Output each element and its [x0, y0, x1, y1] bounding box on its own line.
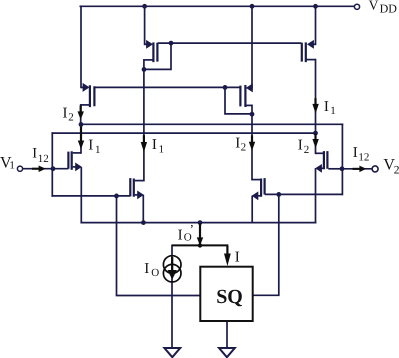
node dot V1 junction	[51, 166, 56, 171]
svg-text:I: I	[324, 99, 329, 115]
svg-text:2: 2	[68, 111, 74, 123]
wire MP0 drain down	[80, 105, 82, 125]
svg-text:I: I	[235, 135, 240, 151]
label I2 mid	[235, 135, 246, 153]
wire SQ bottom to ground	[226, 321, 228, 348]
node dot MP2 drain junction	[250, 112, 255, 117]
svg-text:DD: DD	[380, 2, 398, 16]
current arrow I2 mid	[249, 135, 255, 150]
node dot top rail / MP1 source	[142, 4, 147, 9]
terminal V1	[17, 166, 22, 171]
wire node A corner down right side	[341, 124, 343, 194]
svg-text:12: 12	[38, 153, 49, 165]
wire MP2 diode loop	[225, 87, 252, 114]
svg-text:2: 2	[304, 144, 310, 156]
svg-text:SQ: SQ	[216, 286, 243, 308]
svg-text:1: 1	[9, 159, 15, 171]
svg-text:I: I	[178, 227, 183, 243]
wire tail rail (common sources)	[81, 222, 315, 224]
wire SQ left input from V1 node	[117, 196, 201, 296]
SQ block	[200, 267, 252, 321]
wire MN2 source drop	[142, 196, 144, 223]
terminal V2	[372, 166, 378, 172]
current arrow IO' tail	[197, 224, 203, 246]
wire V1 riser	[51, 133, 53, 196]
wire MN3 source drop	[251, 196, 253, 222]
svg-text:I: I	[353, 145, 358, 161]
svg-text:I: I	[144, 261, 149, 277]
label IO'	[178, 222, 194, 244]
svg-text:V: V	[369, 0, 379, 12]
node dot node A left	[79, 122, 84, 127]
label I2 left	[63, 106, 74, 124]
svg-text:1: 1	[95, 144, 101, 156]
current source IO arrow	[168, 257, 177, 280]
svg-text:I: I	[63, 106, 68, 122]
node dot top rail / MP2 source	[250, 4, 255, 9]
wire node A rail (MP0 drain to right corner)	[81, 123, 342, 125]
current arrow I12 left	[32, 166, 46, 173]
svg-text:1: 1	[159, 144, 165, 156]
node dot SQ right tap	[276, 192, 281, 197]
svg-text:I: I	[88, 137, 93, 153]
label V1	[0, 155, 15, 172]
label I1 right	[324, 99, 336, 117]
wire SQ right input from V2 node	[253, 194, 279, 295]
label I1 left	[88, 137, 100, 156]
node dot MP2 gate loop	[223, 85, 228, 90]
wire IO' black horizontal	[172, 245, 227, 246]
wire node A down to MN1 drain	[80, 124, 82, 152]
current arrow I12 right	[353, 166, 367, 173]
wire MP1 drain down to MN2 drain	[143, 60, 145, 181]
transistor MP3	[302, 40, 316, 62]
svg-text:O: O	[151, 267, 159, 279]
label VDD	[369, 0, 398, 16]
node dot top rail / MP3 source	[313, 4, 318, 9]
transistor MN2	[130, 178, 144, 199]
transistor MN4	[315, 151, 342, 173]
node dot IO' black	[198, 243, 202, 247]
transistor MN3	[252, 178, 265, 200]
svg-text:I: I	[152, 137, 157, 153]
node dot MN2 source on tail rail	[141, 220, 146, 225]
ground right	[219, 348, 235, 357]
node dot SQ left tap	[114, 194, 119, 199]
label I1 mid	[152, 137, 164, 155]
svg-text:I: I	[32, 146, 37, 162]
svg-text:I: I	[298, 138, 303, 154]
wire V2 to terminal	[342, 168, 372, 170]
svg-text:12: 12	[358, 151, 369, 163]
transistor MP2	[240, 83, 252, 107]
svg-text:2: 2	[394, 164, 399, 176]
current arrow I1 right	[312, 98, 318, 113]
wire MN1 source down to tail rail	[80, 168, 82, 223]
wire PMOS mirror gate line mid (MP0-MP2)	[95, 86, 240, 88]
wire node B rail (left corner to MP3 drain)	[52, 132, 315, 134]
transistor MP1	[144, 40, 158, 62]
svg-text:’: ’	[190, 222, 194, 237]
current arrow I1 left	[78, 127, 84, 150]
wire VDD corner down to MP0 source	[80, 6, 82, 87]
transistor MN1	[68, 151, 82, 171]
wire PMOS mirror gate line top (MP1-MP3)	[158, 42, 300, 44]
svg-text:2: 2	[241, 142, 247, 154]
wire MP1 source drop	[144, 6, 146, 44]
current arrow I into SQ	[224, 246, 231, 266]
label I12 left	[32, 146, 49, 165]
node dot MP1 gate loop	[169, 41, 174, 46]
terminal VDD	[354, 4, 359, 9]
svg-text:1: 1	[330, 105, 336, 117]
label I2 right	[298, 138, 310, 157]
label V2	[383, 157, 399, 177]
transistor MP0	[81, 83, 95, 107]
label I into SQ	[235, 250, 240, 266]
ground left	[164, 348, 180, 357]
wire MN4 source down to tail rail	[315, 169, 317, 223]
wire MP1 diode loop	[144, 43, 171, 69]
svg-text:I: I	[235, 250, 240, 266]
wire MP3 drain down to MN4 drain	[315, 60, 317, 154]
current arrow I2 right	[312, 134, 318, 148]
wire V1 to MN1 gate	[23, 168, 68, 170]
node dot node B right	[313, 131, 318, 136]
wire MP2 drain down to MN3 drain	[251, 105, 253, 179]
label IO	[144, 261, 159, 279]
current arrow I2 left	[78, 106, 84, 120]
current arrow I1 mid	[141, 135, 147, 152]
label I12 right	[353, 145, 370, 163]
wire V1 gate line to MN2 gate	[52, 195, 129, 197]
node dot V2 junction	[340, 166, 345, 171]
current source IO circles	[163, 256, 181, 282]
wire VDD top rail	[80, 5, 354, 7]
node dot tail tap	[198, 220, 203, 225]
wire V2 gate line to MN3 gate	[266, 193, 342, 195]
wire MP2 source drop	[251, 6, 253, 88]
wire MP3 source drop	[315, 6, 317, 44]
wire IO tail to ground	[171, 245, 173, 347]
node dot MP1 drain junction	[142, 67, 147, 72]
